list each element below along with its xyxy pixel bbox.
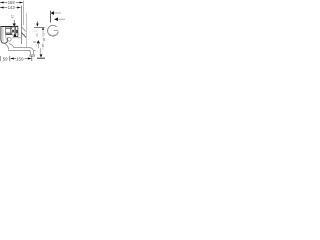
supply pipe inner line — [5, 44, 30, 55]
spout outlet inner lines — [2, 27, 4, 42]
centerline dash left of circle — [33, 30, 37, 32]
spout tube bar inside circle — [54, 29, 59, 31]
union nut outline — [12, 27, 15, 35]
escutcheon dark detail — [16, 30, 18, 33]
bottom dim left tick — [0, 56, 2, 61]
supply pipe outer line — [9, 44, 34, 55]
150 left arrow — [10, 57, 14, 59]
tube shadow line upper — [5, 27, 12, 29]
bottom dim mid tick — [9, 56, 11, 61]
wall hatch stroke 1 — [22, 27, 26, 32]
up arrow tip y40.2 — [37, 40, 40, 43]
flange inner arc — [50, 34, 56, 35]
outlet inner radius arc — [6, 35, 8, 41]
svg-text:59: 59 — [3, 56, 8, 61]
tube shadow line lower — [5, 32, 12, 34]
upper right dim line 1 — [51, 12, 61, 14]
wall line x21 — [21, 6, 23, 44]
dim line 2 arrow — [54, 17, 58, 21]
escutcheon plate — [16, 26, 18, 36]
tube separator x10.7 — [10, 27, 12, 35]
pipe collar left — [29, 50, 31, 52]
dimension 168 line — [0, 2, 23, 4]
dimension 143 line — [0, 7, 21, 9]
down arrow tip y26.6 — [36, 24, 39, 27]
aerator ring — [8, 38, 12, 42]
bottom dim right tick — [31, 56, 33, 62]
up arrow tip y27.3 below line — [42, 27, 45, 29]
svg-text:143: 143 — [8, 5, 15, 10]
vertical dim line above spout — [13, 20, 15, 24]
side line y42 — [33, 41, 36, 43]
surface line y27 — [34, 26, 45, 28]
union nut block — [12, 30, 14, 33]
spout bottom edge — [6, 34, 12, 36]
plate bottom extension line — [12, 37, 21, 39]
wall hatch stroke 2 — [22, 32, 27, 37]
down arrow tip y56.9 — [40, 54, 43, 57]
upper right dim line 2 — [54, 18, 65, 20]
extension line x23 — [22, 1, 24, 25]
faint tick x36.8 — [36, 44, 38, 47]
up arrow under tube — [13, 34, 16, 37]
rim base line — [37, 57, 45, 59]
pipe end cap — [30, 55, 35, 56]
svg-text:42: 42 — [10, 15, 14, 19]
150 line right — [25, 58, 28, 60]
front view flange circle — [48, 25, 59, 36]
150 right arrow — [28, 57, 32, 59]
spout top edge — [0, 26, 17, 28]
right vertical extension line x50.4 — [50, 11, 52, 23]
svg-text:150: 150 — [16, 56, 24, 61]
dimension 168 arrows — [0, 2, 4, 4]
dim line 1 arrow — [51, 11, 54, 15]
vertical dim line upper segment x37.4 — [36, 21, 38, 23]
spout outlet outer edge — [1, 27, 8, 43]
dimension 143 arrows — [0, 7, 4, 9]
pipe collar right — [34, 50, 36, 52]
svg-text:5: 5 — [42, 43, 45, 48]
finished wall line x26.6 — [26, 13, 28, 47]
tube separator x5.7 — [5, 27, 7, 35]
vertical dim line lower segments — [37, 43, 39, 48]
dim line x43 below arrow — [42, 30, 44, 37]
down arrow onto spout top — [13, 24, 16, 27]
